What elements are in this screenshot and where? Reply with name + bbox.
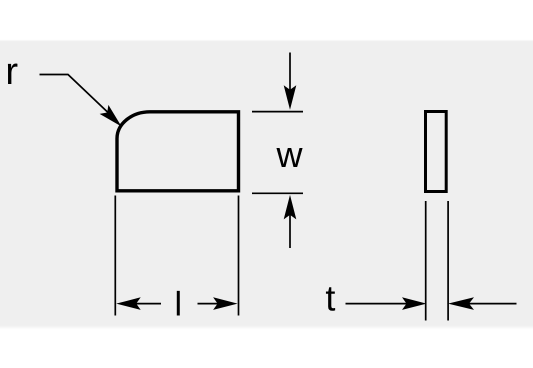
label w (276, 148, 302, 167)
l dimension right extension line (238, 196, 240, 316)
label r (8, 64, 18, 84)
w dimension bottom tick (252, 192, 303, 194)
l dimension right arrowhead (213, 297, 238, 310)
w dimension down arrow stem (289, 53, 291, 91)
l dimension left arrow line (136, 303, 161, 305)
t dimension right extension line (447, 201, 449, 321)
l dimension left arrowhead (116, 297, 141, 310)
label l (177, 291, 180, 316)
leader line for r (40, 75, 109, 113)
w dimension down arrowhead (284, 85, 297, 110)
t dimension right arrowhead (pointing left) (448, 297, 474, 310)
leader arrowhead (100, 105, 122, 127)
t dimension left line (346, 303, 408, 305)
l dimension left extension line (114, 196, 116, 316)
front view outline (rectangle with rounded top-left corner) (117, 112, 239, 191)
l dimension right arrow line (198, 303, 219, 305)
side view outline (thin rectangle) (426, 112, 447, 192)
w dimension up arrowhead (284, 195, 297, 220)
label t (326, 287, 335, 311)
w dimension top tick (252, 111, 303, 113)
t dimension right line (468, 303, 517, 305)
t dimension left arrowhead (pointing right) (402, 297, 427, 310)
w dimension up arrow stem (289, 214, 291, 248)
t dimension left extension line (425, 201, 427, 321)
